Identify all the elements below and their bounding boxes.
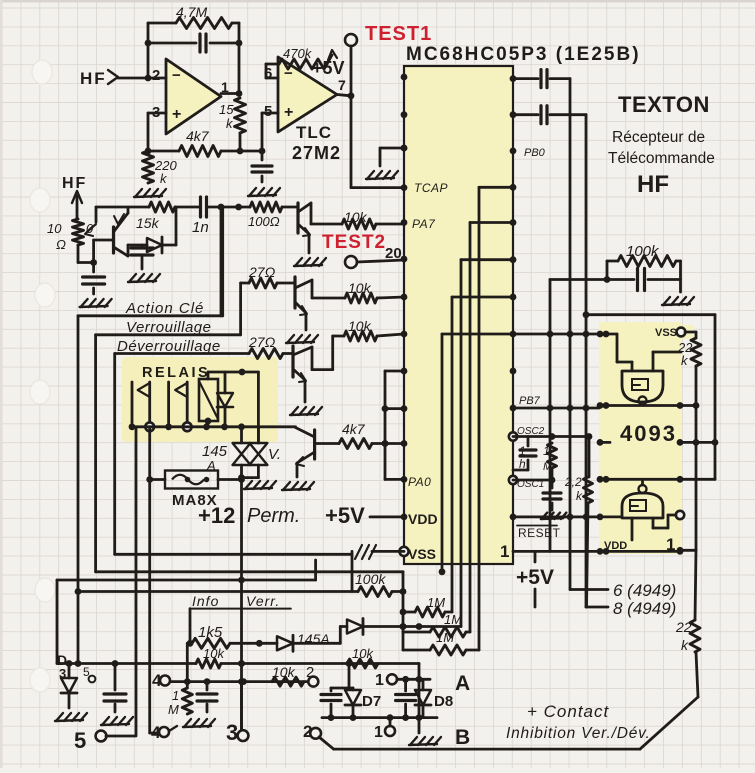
svg-text:Ω: Ω bbox=[56, 237, 66, 252]
svg-text:470k: 470k bbox=[283, 46, 313, 61]
svg-text:15: 15 bbox=[219, 102, 234, 117]
svg-text:10: 10 bbox=[47, 221, 62, 236]
svg-text:1: 1 bbox=[374, 724, 383, 741]
svg-text:VDD: VDD bbox=[408, 511, 438, 527]
svg-text:10k: 10k bbox=[348, 280, 372, 296]
svg-text:+5V: +5V bbox=[325, 503, 365, 528]
svg-text:6 (4949): 6 (4949) bbox=[613, 581, 676, 600]
svg-text:4k7: 4k7 bbox=[342, 421, 366, 437]
svg-text:4k7: 4k7 bbox=[186, 128, 210, 144]
svg-text:PA0: PA0 bbox=[408, 475, 431, 489]
svg-text:Télécommande: Télécommande bbox=[608, 150, 715, 167]
svg-text:V.: V. bbox=[268, 446, 281, 463]
svg-text:1: 1 bbox=[500, 542, 509, 561]
svg-text:HF: HF bbox=[80, 69, 107, 88]
svg-text:5: 5 bbox=[264, 103, 272, 120]
svg-text:D7: D7 bbox=[362, 693, 381, 710]
svg-text:27Ω: 27Ω bbox=[248, 334, 276, 350]
svg-text:+5V: +5V bbox=[516, 566, 554, 589]
svg-text:VSS: VSS bbox=[408, 546, 436, 562]
svg-text:+: + bbox=[172, 106, 181, 123]
svg-text:Récepteur de: Récepteur de bbox=[612, 129, 705, 146]
svg-text:Verr.: Verr. bbox=[246, 593, 280, 609]
svg-text:TLC: TLC bbox=[296, 123, 332, 142]
svg-text:TEXTON: TEXTON bbox=[618, 92, 710, 117]
svg-text:5: 5 bbox=[74, 728, 86, 753]
svg-text:Perm.: Perm. bbox=[247, 505, 300, 527]
svg-text:PB0: PB0 bbox=[524, 147, 546, 159]
svg-text:PB7: PB7 bbox=[519, 395, 541, 407]
svg-text:Info: Info bbox=[192, 593, 219, 609]
svg-text:2,2: 2,2 bbox=[564, 475, 582, 489]
svg-text:Inhibition Ver./Dév.: Inhibition Ver./Dév. bbox=[506, 725, 651, 742]
svg-text:MC68HC05P3 (1E25B): MC68HC05P3 (1E25B) bbox=[406, 44, 641, 65]
svg-text:1M: 1M bbox=[444, 612, 462, 627]
svg-text:10k: 10k bbox=[348, 318, 372, 334]
svg-text:TEST1: TEST1 bbox=[365, 23, 432, 45]
svg-text:7: 7 bbox=[338, 77, 346, 93]
svg-text:100k: 100k bbox=[355, 571, 386, 587]
svg-text:A: A bbox=[455, 672, 470, 695]
svg-text:27M2: 27M2 bbox=[292, 143, 341, 163]
svg-text:M: M bbox=[168, 702, 179, 717]
svg-text:3: 3 bbox=[226, 720, 238, 745]
svg-text:B: B bbox=[455, 726, 470, 749]
svg-text:PA7: PA7 bbox=[412, 217, 436, 231]
svg-text:+ Contact: + Contact bbox=[527, 702, 610, 721]
svg-text:VSS: VSS bbox=[655, 327, 677, 339]
svg-text:100Ω: 100Ω bbox=[248, 214, 280, 229]
svg-text:TCAP: TCAP bbox=[414, 181, 448, 195]
svg-text:+12: +12 bbox=[198, 503, 235, 528]
svg-text:15k: 15k bbox=[136, 215, 160, 231]
svg-text:k: k bbox=[681, 637, 689, 653]
svg-text:VDD: VDD bbox=[604, 540, 627, 552]
svg-text:TEST2: TEST2 bbox=[322, 232, 386, 253]
svg-text:RESET: RESET bbox=[518, 526, 561, 540]
svg-text:+: + bbox=[284, 104, 293, 121]
svg-text:1n: 1n bbox=[192, 219, 209, 236]
svg-text:2: 2 bbox=[152, 67, 160, 84]
svg-text:1: 1 bbox=[375, 672, 384, 689]
svg-text:1M: 1M bbox=[436, 630, 454, 645]
svg-text:−: − bbox=[172, 67, 181, 84]
svg-text:1: 1 bbox=[172, 688, 179, 703]
svg-text:HF: HF bbox=[637, 171, 669, 198]
svg-text:k: k bbox=[576, 489, 583, 503]
svg-text:4093: 4093 bbox=[620, 421, 677, 446]
svg-text:8 (4949): 8 (4949) bbox=[613, 599, 676, 618]
svg-text:+5V: +5V bbox=[312, 58, 345, 78]
svg-text:HF: HF bbox=[62, 175, 87, 192]
svg-text:D8: D8 bbox=[434, 693, 453, 710]
svg-text:1: 1 bbox=[666, 535, 675, 554]
